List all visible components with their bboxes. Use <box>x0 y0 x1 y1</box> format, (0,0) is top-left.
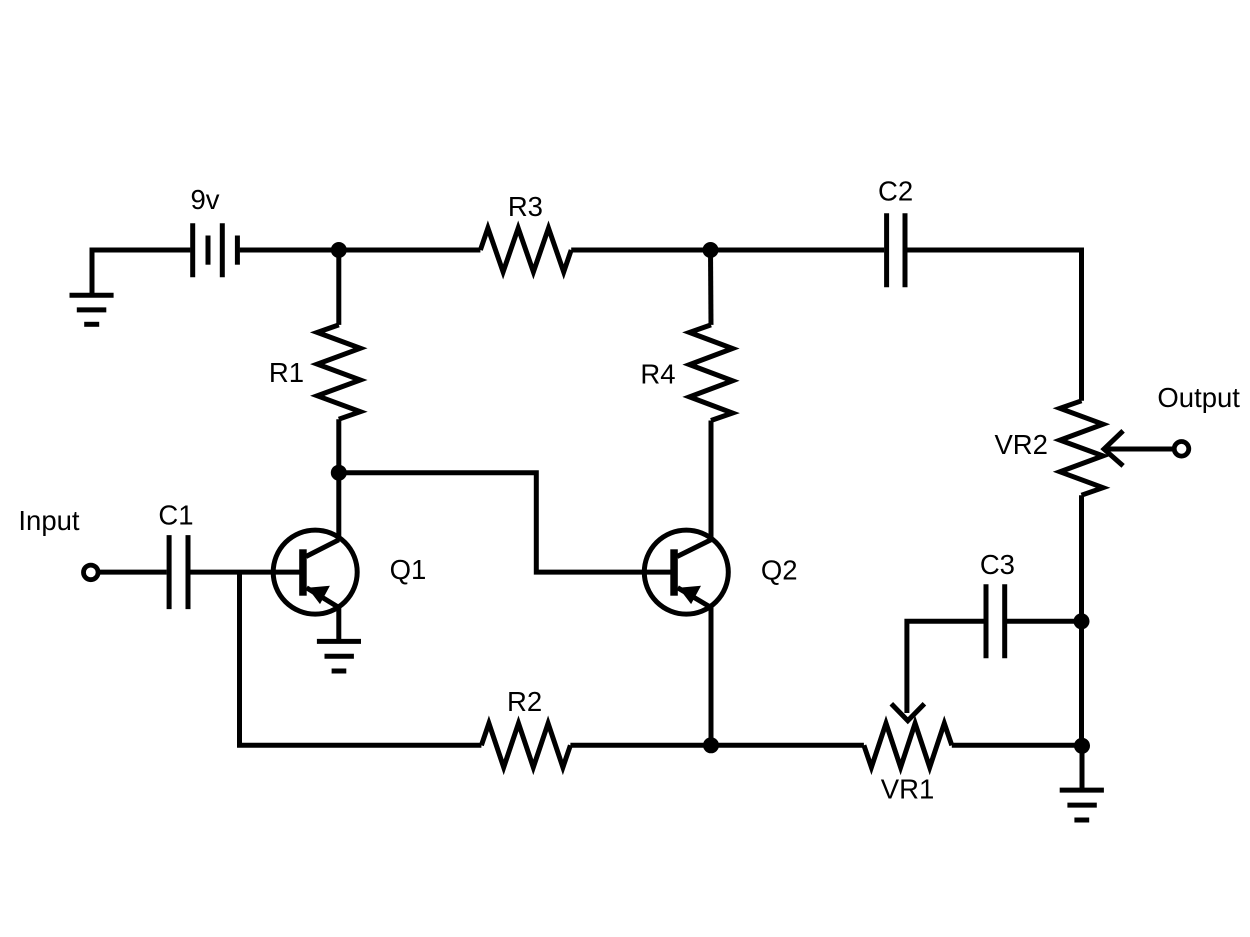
label Q2 <box>761 555 798 586</box>
label 9v <box>190 184 219 215</box>
label C1 <box>158 499 193 530</box>
wire: feedback branch down from base line <box>240 572 482 745</box>
svg-text:C1: C1 <box>158 499 193 530</box>
label R4 <box>640 358 675 389</box>
svg-text:C3: C3 <box>980 549 1015 580</box>
label VR1 <box>881 774 935 805</box>
wire: battery to R3 (top rail left) <box>240 248 481 253</box>
label Output <box>1157 382 1240 413</box>
svg-text:Q1: Q1 <box>390 554 427 585</box>
wire: C3 left plate to VR1 wiper arrow <box>907 621 984 713</box>
resistor R3 <box>480 228 571 272</box>
transistor Q1 <box>273 530 357 614</box>
node D (Q2 emitter / bottom rail) <box>703 737 719 753</box>
label VR2 <box>994 429 1048 460</box>
svg-text:Output: Output <box>1157 382 1240 413</box>
node F (bottom-right) <box>1074 738 1090 754</box>
wire: ground to battery top-left <box>92 250 190 295</box>
resistor R4 <box>690 325 733 421</box>
transistor Q2 <box>644 530 728 614</box>
svg-text:R4: R4 <box>640 358 675 389</box>
svg-text:VR2: VR2 <box>994 429 1048 460</box>
potentiometer VR1 <box>864 723 952 767</box>
wire: C1 to Q1 base <box>190 570 306 575</box>
wire: R1 to Q1 collector node <box>336 419 341 473</box>
label Input <box>18 505 80 536</box>
wire: VR1 to bottom-right node <box>952 743 1082 748</box>
label C3 <box>980 549 1015 580</box>
label R3 <box>508 191 543 222</box>
potentiometer VR2 <box>1060 401 1103 495</box>
wire: Q1 emitter down to ground <box>336 606 341 641</box>
ground GND2 (Q1 emitter) <box>317 641 361 671</box>
capacitor C2 <box>887 213 905 287</box>
wire: R4 to Q2 collector <box>709 421 714 542</box>
resistor R1 <box>317 325 360 419</box>
svg-text:9v: 9v <box>190 184 219 215</box>
svg-text:R1: R1 <box>269 357 304 388</box>
label R2 <box>507 686 542 717</box>
wire: node B down to R4 <box>708 250 714 325</box>
capacitor C1 <box>169 535 188 609</box>
label Q1 <box>390 554 427 585</box>
wire: Q1 collector up to node C <box>336 473 341 541</box>
wire: VR2 bottom to C3 node <box>1079 495 1084 621</box>
resistor R2 <box>481 723 570 767</box>
svg-text:VR1: VR1 <box>881 774 935 805</box>
wire: C3 right plate to node E <box>1007 619 1082 624</box>
wire: node A down to R1 <box>336 250 341 325</box>
capacitor C3 <box>986 584 1005 658</box>
wire: Q2 emitter down to bottom rail <box>709 606 714 745</box>
battery B1 9v <box>193 223 238 277</box>
wire: node C to Q2 base <box>339 473 678 572</box>
ground GND1 (battery) <box>70 295 114 324</box>
VR2 wiper arrow <box>1104 431 1173 466</box>
svg-text:Input: Input <box>18 505 80 536</box>
svg-text:R3: R3 <box>508 191 543 222</box>
label C2 <box>878 176 913 207</box>
input terminal <box>84 565 99 580</box>
VR1 wiper arrow <box>891 704 924 721</box>
svg-text:C2: C2 <box>878 176 913 207</box>
svg-text:Q2: Q2 <box>761 555 798 586</box>
wire: R3 to C2 (top rail right) <box>571 248 884 253</box>
output terminal <box>1174 442 1189 457</box>
wire: C3 node down to bottom-right node <box>1079 621 1084 745</box>
wire: input terminal to C1 <box>100 570 167 575</box>
node A (top rail / R1) <box>331 242 347 258</box>
node E (C3 / output rail) <box>1074 613 1090 629</box>
wire: bottom-right node to ground <box>1080 745 1085 790</box>
ground GND3 (bottom right) <box>1060 790 1104 820</box>
wire: C2 to VR2 top (right corner) <box>907 250 1081 401</box>
wire: R2 to VR1 <box>570 743 864 748</box>
svg-text:R2: R2 <box>507 686 542 717</box>
node B (top rail / R4) <box>703 242 719 258</box>
label R1 <box>269 357 304 388</box>
node C (Q1 collector / coupling) <box>331 465 347 481</box>
